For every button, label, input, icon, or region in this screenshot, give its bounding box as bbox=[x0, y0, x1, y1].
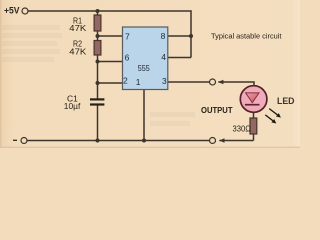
svg-text:4: 4 bbox=[161, 52, 166, 62]
capacitor C1 plates bbox=[90, 98, 104, 100]
node: pin8 supply junction bbox=[189, 34, 193, 38]
resistor R1 bbox=[94, 15, 101, 31]
LED light arrow 2 bbox=[265, 115, 276, 124]
wire: pin 2 bbox=[98, 82, 123, 84]
node: R1 top junction bbox=[96, 9, 100, 13]
wire: pin 8 bbox=[168, 35, 191, 37]
resistor R2 bbox=[94, 41, 101, 56]
wire: 330R to ground rail bbox=[253, 134, 255, 141]
resistor R3 330ohm bbox=[250, 118, 257, 134]
svg-text:Typical astable circuit: Typical astable circuit bbox=[211, 32, 282, 41]
terminal output return bbox=[210, 138, 216, 144]
svg-text:6: 6 bbox=[125, 53, 130, 63]
terminal output bbox=[210, 79, 216, 85]
wire: pin 1 to ground rail bbox=[143, 90, 145, 141]
node: C1 ground junction bbox=[96, 139, 100, 143]
svg-text:555: 555 bbox=[138, 63, 150, 73]
terminal ground minus bbox=[21, 138, 27, 144]
wire: left vertical through R1 R2 to C1 top plate bbox=[97, 11, 99, 99]
node: pin1 ground junction bbox=[142, 139, 146, 143]
terminal +5V bbox=[22, 8, 28, 14]
LED D1 triangle bbox=[246, 93, 259, 103]
LED light arrow 1 bbox=[269, 109, 281, 118]
wire: pin 3 to output terminal bbox=[168, 81, 210, 83]
wire: +5V rail top bbox=[28, 11, 191, 58]
wire: ground rail left bbox=[27, 140, 209, 142]
svg-text:OUTPUT: OUTPUT bbox=[201, 106, 233, 115]
wire: ground rail right to 330R bbox=[219, 140, 253, 142]
LED D1 cathode bar bbox=[245, 104, 260, 106]
svg-text:330Ω: 330Ω bbox=[233, 123, 252, 133]
svg-text:LED: LED bbox=[277, 96, 295, 106]
svg-text:2: 2 bbox=[123, 76, 128, 86]
svg-text:47K: 47K bbox=[69, 23, 86, 33]
svg-text:3: 3 bbox=[162, 76, 167, 86]
svg-text:1: 1 bbox=[136, 77, 141, 87]
wire: output terminal to LED anode bbox=[218, 82, 254, 87]
wire: C1 bottom to ground rail bbox=[97, 106, 99, 141]
wire: pin 6 bbox=[98, 61, 123, 63]
wire: pin 4 bbox=[168, 57, 191, 59]
arrow on output wire bbox=[218, 80, 223, 85]
node: pin2 junction bbox=[96, 81, 100, 85]
svg-text:+5V: +5V bbox=[4, 6, 20, 16]
node: pin7 R1/R2 junction bbox=[96, 34, 100, 38]
LED D1 body bbox=[240, 86, 267, 113]
label minus bbox=[13, 139, 17, 141]
node: pin6 junction bbox=[96, 60, 100, 64]
arrow on return wire bbox=[219, 138, 224, 143]
svg-text:47K: 47K bbox=[69, 46, 86, 56]
svg-text:10µf: 10µf bbox=[64, 101, 81, 111]
svg-text:8: 8 bbox=[161, 31, 166, 41]
wire: LED cathode to 330R bbox=[253, 112, 255, 119]
wire: pin 7 bbox=[98, 35, 123, 37]
op IC 555 timer U1 body bbox=[123, 27, 168, 90]
svg-text:7: 7 bbox=[125, 31, 130, 41]
